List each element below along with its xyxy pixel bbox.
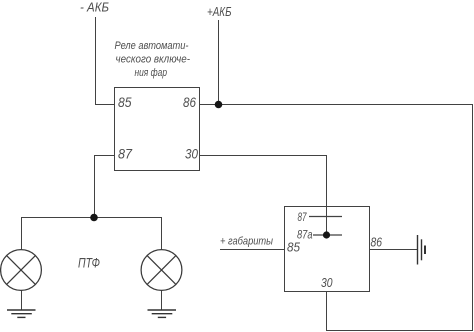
wire lamp bus horizontal [21, 217, 162, 219]
svg-text:85: 85 [118, 94, 132, 110]
wire pin30 K1 down to 87a of K2 [326, 156, 328, 236]
svg-text:ния фар: ния фар [135, 67, 168, 79]
lamp HL1 [1, 250, 42, 291]
wire -AKB vertical [95, 17, 97, 104]
svg-text:85: 85 [287, 241, 300, 255]
svg-text:30: 30 [321, 276, 333, 290]
wire bottom rail horizontal [327, 330, 474, 332]
svg-text:- АКБ: - АКБ [80, 0, 109, 15]
wire pin85 relay K2 [220, 249, 285, 251]
wire pin87 K1 down to lamp bus [94, 156, 96, 218]
wire pin30 relay K1 horizontal [200, 155, 328, 157]
junction dot +AKB / pin86 K1 [215, 101, 223, 109]
wire drop to lamp HL2 [161, 218, 163, 251]
svg-text:87: 87 [118, 146, 133, 162]
wire pin87 relay K1 horizontal [94, 155, 115, 157]
ground under lamp HL2 [148, 310, 177, 317]
wire drop to lamp HL1 [21, 218, 23, 251]
junction dot 87a of K2 [323, 231, 330, 238]
relay K2 box [285, 207, 370, 292]
svg-text:87: 87 [298, 210, 308, 224]
wire pin30 relay K2 vertical [326, 291, 328, 331]
relay K1 box [115, 88, 200, 171]
svg-text:+ габариты: + габариты [220, 236, 273, 248]
wire lamp HL1 to ground [21, 290, 23, 310]
lamp HL2 [141, 250, 182, 291]
svg-text:86: 86 [371, 236, 383, 250]
svg-text:Реле автомати-: Реле автомати- [115, 40, 189, 52]
wire lamp HL2 to ground [161, 290, 163, 310]
contact bar pin 87a of K2 [313, 234, 342, 236]
svg-text:87а: 87а [297, 228, 313, 242]
wire right rail vertical [472, 104, 474, 331]
ground at pin86 K2 (rotated) [418, 235, 426, 265]
wire pin86 relay K1 to right rail [200, 104, 474, 106]
svg-text:30: 30 [185, 146, 198, 162]
svg-text:+АКБ: +АКБ [207, 5, 232, 19]
wire pin85 relay K1 [95, 104, 115, 106]
svg-text:86: 86 [183, 94, 196, 110]
junction dot lamp bus [90, 214, 98, 222]
svg-text:ПТФ: ПТФ [78, 256, 100, 271]
wire +AKB vertical [218, 20, 220, 104]
svg-text:ческого включе-: ческого включе- [116, 54, 191, 66]
ground under lamp HL1 [7, 310, 36, 317]
wire pin86 relay K2 to ground [370, 249, 418, 251]
contact bar pin 87 of K2 [309, 216, 342, 218]
